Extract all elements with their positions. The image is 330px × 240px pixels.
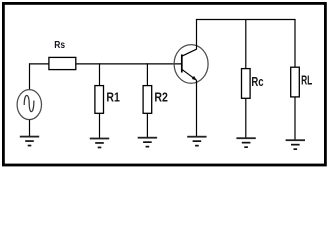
ground (Rc) <box>236 137 255 148</box>
resistor Rc <box>242 69 251 99</box>
wire RL top <box>294 20 296 68</box>
wire emitter <box>196 80 198 137</box>
svg-text:R2: R2 <box>154 90 168 105</box>
wire source vertical lower <box>29 120 31 137</box>
ground (R1) <box>90 138 109 149</box>
svg-text:Rs: Rs <box>54 40 65 51</box>
wire R1 bottom <box>99 113 101 138</box>
ground (source) <box>20 136 39 147</box>
resistor R1 <box>95 86 104 114</box>
wire Rc top <box>245 20 247 69</box>
wire Rc bottom <box>245 98 247 137</box>
ground (R2) <box>138 137 157 148</box>
svg-text:Rc: Rc <box>251 75 263 89</box>
resistor R2 <box>143 86 152 114</box>
top rail <box>196 19 296 21</box>
svg-text:R1: R1 <box>106 90 119 105</box>
svg-text:RL: RL <box>301 74 312 88</box>
wire source top to Rs <box>30 63 49 65</box>
wire Rs to base <box>76 63 182 65</box>
ground (emitter) <box>187 136 206 147</box>
wire R1 top <box>99 63 101 85</box>
AC source V1 <box>17 90 41 120</box>
wire RL bottom <box>294 97 296 140</box>
wire collector <box>196 20 198 50</box>
border frame <box>3 3 325 165</box>
wire R2 bottom <box>146 113 148 137</box>
resistor Rs <box>49 57 76 69</box>
wire R2 top <box>146 63 148 85</box>
wire source vertical upper <box>29 63 31 90</box>
ground (RL) <box>286 139 305 150</box>
resistor RL <box>291 67 300 97</box>
transistor Q1 <box>174 45 208 84</box>
